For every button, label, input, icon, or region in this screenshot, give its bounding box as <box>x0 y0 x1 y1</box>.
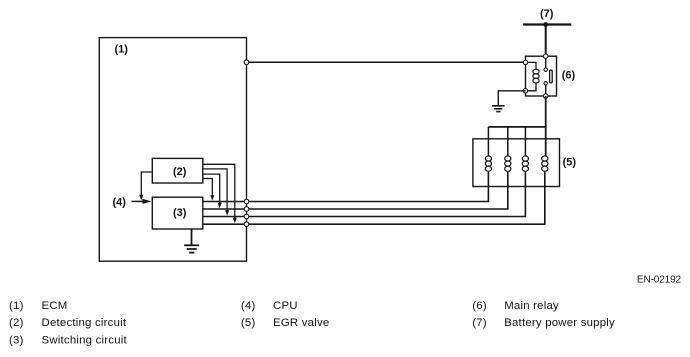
svg-text:EN-02192: EN-02192 <box>637 275 682 286</box>
svg-text:(1): (1) <box>9 300 24 312</box>
svg-text:(7): (7) <box>472 317 487 329</box>
svg-text:(2): (2) <box>9 317 24 329</box>
svg-text:(6): (6) <box>472 300 487 312</box>
svg-text:ECM: ECM <box>42 300 68 312</box>
svg-text:Battery power supply: Battery power supply <box>504 317 615 329</box>
svg-text:(6): (6) <box>562 70 576 82</box>
svg-text:(4): (4) <box>113 197 127 209</box>
svg-text:(3): (3) <box>173 207 187 219</box>
svg-text:(2): (2) <box>173 166 187 178</box>
svg-text:EGR valve: EGR valve <box>273 317 329 329</box>
svg-text:Switching circuit: Switching circuit <box>42 335 128 347</box>
svg-text:Main relay: Main relay <box>504 300 559 312</box>
svg-text:(5): (5) <box>241 317 256 329</box>
svg-text:(3): (3) <box>9 335 24 347</box>
svg-text:(4): (4) <box>241 300 256 312</box>
svg-text:(7): (7) <box>540 8 554 20</box>
svg-text:(1): (1) <box>115 44 129 56</box>
svg-text:CPU: CPU <box>273 300 298 312</box>
svg-text:(5): (5) <box>563 157 577 169</box>
svg-text:Detecting circuit: Detecting circuit <box>42 317 127 329</box>
